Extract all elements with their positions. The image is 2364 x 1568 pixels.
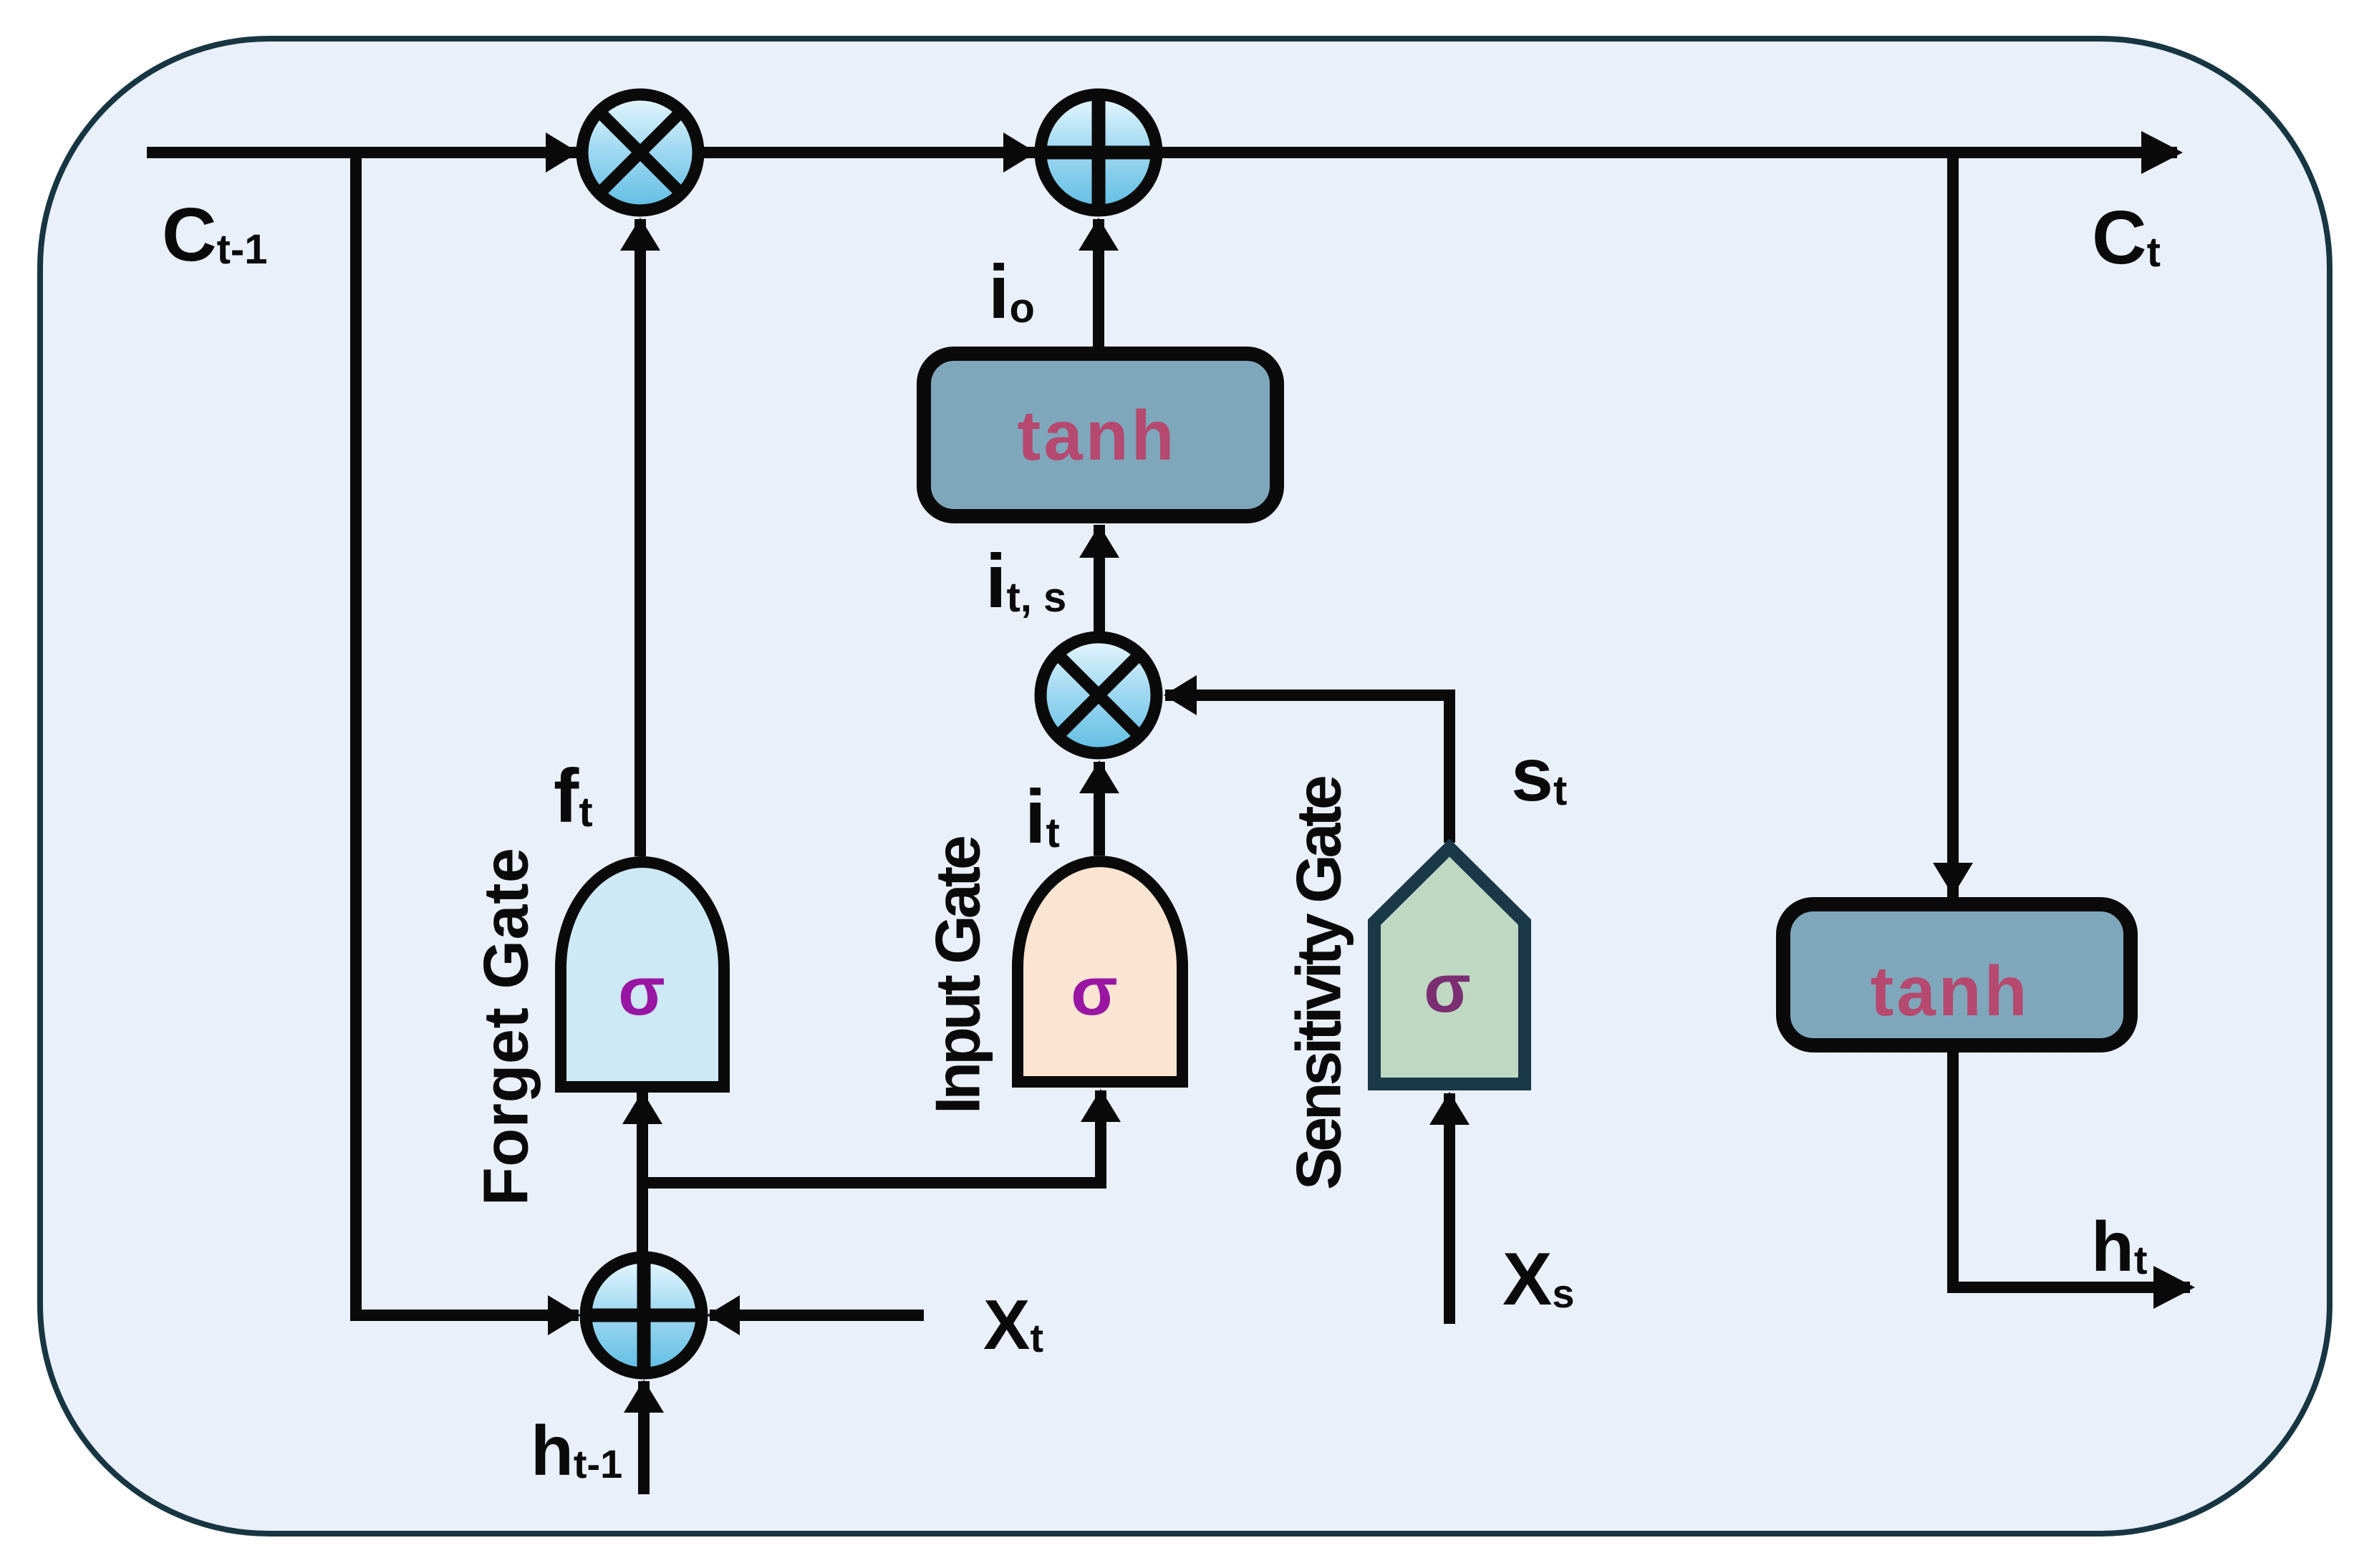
svg-text:Input Gate: Input Gate (922, 835, 993, 1114)
forget gate sigma body (561, 862, 724, 1087)
wire cell-state down to tanh T2 (1947, 153, 1959, 897)
arrowhead h_t output (2153, 1266, 2195, 1309)
wire cell-state right segment (1162, 147, 2177, 158)
arrowhead into multiply node M1 (546, 132, 579, 173)
arrowhead into tanh T1 bottom (1079, 525, 1119, 558)
svg-text:Forget Gate: Forget Gate (471, 848, 541, 1206)
arrowhead into add node A2 right (707, 1295, 740, 1335)
arrowhead into forget gate bottom (622, 1091, 662, 1124)
wire X_t input (710, 1310, 924, 1321)
arrowhead into multiply node M1 bottom (620, 218, 660, 251)
sensitivity gate sigma body (1374, 848, 1525, 1084)
svg-text:σ: σ (1071, 953, 1118, 1030)
svg-text:tanh: tanh (1018, 396, 1177, 475)
arrowhead into add node A1 bottom (1079, 218, 1119, 251)
arrowhead into tanh T2 top (1933, 863, 1973, 896)
add node A2 (586, 1257, 702, 1373)
wire cell-state left segment (147, 147, 577, 158)
arrowhead into add node A1 (1003, 132, 1036, 173)
multiply node M2 (1041, 637, 1157, 753)
wire left branch down to add node A2 (356, 153, 579, 1315)
wire tanh T2 to h_t output (1953, 1052, 2190, 1287)
svg-text:σ: σ (1424, 950, 1471, 1027)
wire forget gate to multiply node M1 (635, 219, 646, 856)
wire input gate to multiply node M2 (1094, 762, 1105, 856)
wire h_t-1 input (638, 1381, 650, 1494)
wire sensitivity gate s_t to multiply node M2 (1165, 695, 1449, 843)
wire multiply node M2 to tanh T1 (1094, 525, 1105, 634)
wire cell-state middle segment (703, 147, 1036, 158)
add node A1 (1041, 95, 1157, 210)
input gate sigma body (1018, 861, 1182, 1082)
arrowhead into multiply node M2 right (1164, 675, 1197, 715)
tanh box T2 (1783, 904, 2131, 1045)
multiply node M1 (582, 95, 698, 210)
wire add node A2 up to forget gate (637, 1093, 648, 1253)
wire tanh T1 to add node A1 (1093, 219, 1104, 347)
tanh box T1 (924, 354, 1277, 516)
arrowhead into multiply node M2 bottom (1079, 760, 1119, 793)
svg-text:σ: σ (618, 953, 665, 1030)
arrowhead into add node A2 bottom (624, 1380, 664, 1413)
arrowhead C_t output (2141, 131, 2183, 174)
arrowhead into add node A2 left (548, 1295, 581, 1335)
arrowhead into sensitivity gate bottom (1429, 1092, 1470, 1125)
arrowhead into input gate bottom (1081, 1089, 1121, 1122)
wire branch to input gate (642, 1090, 1101, 1183)
wire X_s input (1444, 1093, 1455, 1324)
svg-text:tanh: tanh (1871, 952, 2030, 1030)
svg-text:Sensitivity Gate: Sensitivity Gate (1283, 775, 1354, 1190)
